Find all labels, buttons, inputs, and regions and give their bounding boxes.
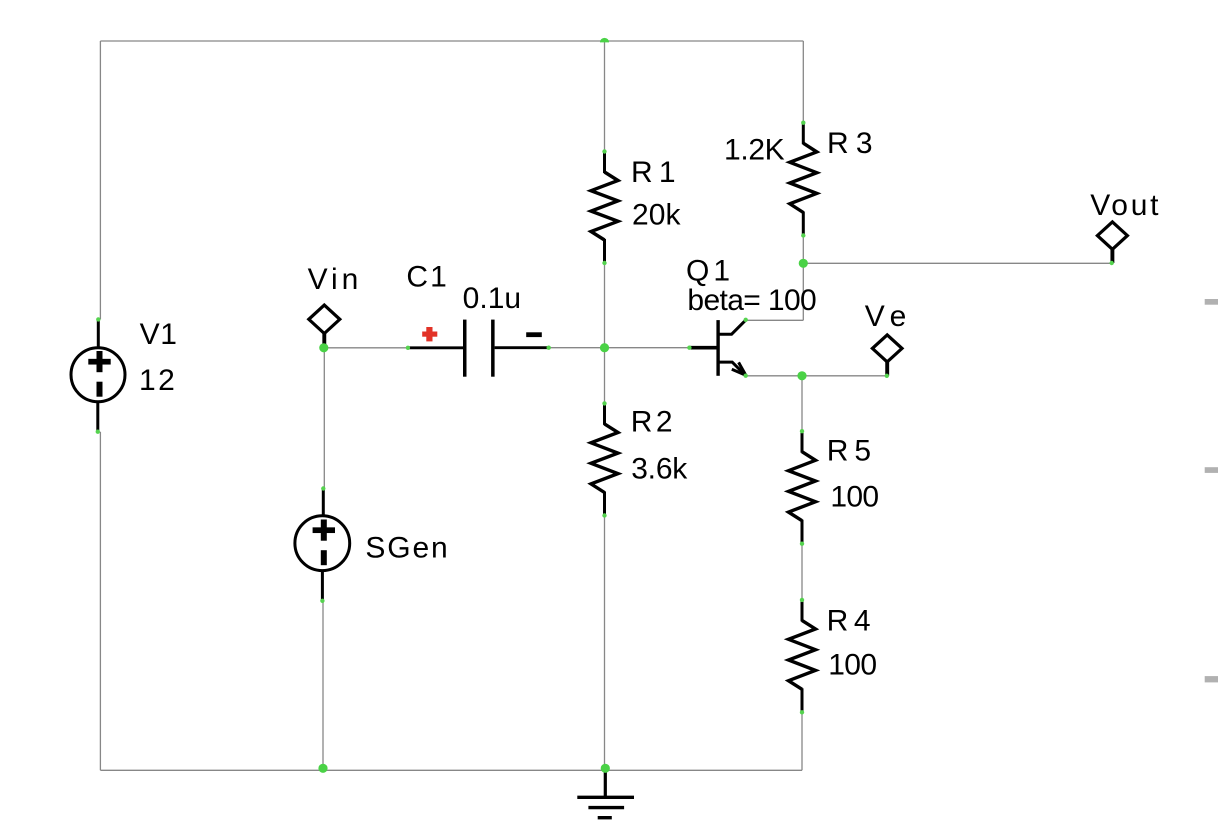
wire top rail to R3 xyxy=(802,41,804,123)
capacitor C1 xyxy=(408,346,463,349)
pin Q1 emitter xyxy=(744,374,748,378)
svg-text:beta= 100: beta= 100 xyxy=(687,284,816,317)
resistor R2 xyxy=(603,403,606,425)
svg-text:R4: R4 xyxy=(827,605,871,638)
svg-text:100: 100 xyxy=(828,648,877,681)
pin R2 top xyxy=(602,401,606,405)
svg-text:R3: R3 xyxy=(827,127,873,160)
scrollbar mark 3 xyxy=(1205,676,1218,682)
wire R3 to Vout junction xyxy=(802,236,804,264)
voltage source V1 xyxy=(97,319,100,348)
resistor R5 xyxy=(801,431,804,453)
junction SGen / bottom rail xyxy=(318,764,327,773)
wire C1 to base junction xyxy=(549,347,605,349)
wire R4 to bottom corner xyxy=(801,712,803,770)
pin Q1 collector xyxy=(744,318,748,322)
svg-text:12: 12 xyxy=(139,364,175,397)
pin R4 bottom xyxy=(800,710,804,714)
wire collector row xyxy=(746,319,804,321)
svg-text:Ve: Ve xyxy=(865,300,907,333)
signal source SGen xyxy=(322,489,325,517)
transistor Q1 xyxy=(689,346,716,350)
scrollbar mark 1 xyxy=(1205,299,1218,305)
svg-text:SGen: SGen xyxy=(365,531,447,564)
pin R4 top xyxy=(800,598,804,602)
pin R5 top xyxy=(800,429,804,433)
pin R2 bottom xyxy=(602,513,606,517)
pin R1 bottom xyxy=(602,261,606,265)
pin C1 left xyxy=(406,346,410,350)
svg-text:R5: R5 xyxy=(827,434,871,467)
pin SGen top xyxy=(321,486,325,490)
node Vin junction xyxy=(319,343,328,352)
node Vin flag xyxy=(322,333,326,348)
pin V1 bottom xyxy=(96,430,100,434)
pin Vout flag xyxy=(1110,261,1114,265)
svg-text:20k: 20k xyxy=(632,198,682,231)
pin Ve flag xyxy=(885,374,889,378)
svg-text:C1: C1 xyxy=(406,261,446,294)
wire left rail lower xyxy=(99,432,101,771)
svg-text:R1: R1 xyxy=(631,156,676,189)
wire R2 to ground rail xyxy=(604,516,606,771)
pin R5 bottom xyxy=(800,542,804,546)
pin V1 top xyxy=(96,317,100,321)
wire emitter junction to R5 xyxy=(801,376,803,431)
svg-text:Vin: Vin xyxy=(308,263,359,296)
scrollbar mark 2 xyxy=(1205,467,1218,473)
ground xyxy=(604,770,607,797)
wire Vin to C1 xyxy=(324,347,408,349)
wire Vin to SGen xyxy=(323,348,325,489)
wire base junction to Q1 base xyxy=(605,347,690,349)
svg-text:1.2K: 1.2K xyxy=(724,133,785,166)
wire SGen to bottom rail xyxy=(322,601,324,771)
wire Vout net xyxy=(803,262,1111,264)
pin Q1 base xyxy=(687,346,691,350)
svg-text:100: 100 xyxy=(830,480,879,513)
svg-text:0.1u: 0.1u xyxy=(463,282,521,315)
svg-text:Q1: Q1 xyxy=(686,255,730,288)
pin R1 top xyxy=(602,149,606,153)
resistor R4 xyxy=(801,600,804,622)
svg-text:V1: V1 xyxy=(140,318,177,351)
pin C1 right xyxy=(547,346,551,350)
wire R5 to R4 xyxy=(801,544,803,600)
wire R1-R2 mid segment xyxy=(604,263,606,403)
resistor R1 xyxy=(603,152,606,174)
junction base node xyxy=(600,343,609,352)
svg-text:Vout: Vout xyxy=(1090,189,1159,222)
pin SGen bottom xyxy=(320,599,324,603)
junction emitter node xyxy=(797,371,806,380)
wire R1 branch upper xyxy=(604,41,606,152)
junction top rail / R1 branch xyxy=(600,38,609,43)
pin R3 top xyxy=(801,121,805,125)
junction Vout node xyxy=(799,259,808,268)
node Ve flag xyxy=(885,361,889,376)
svg-text:R2: R2 xyxy=(631,406,673,439)
wire top rail xyxy=(100,40,803,42)
wire bottom rail xyxy=(100,769,802,771)
wire left rail upper xyxy=(99,41,101,319)
C1 polarity plus mark xyxy=(422,332,437,337)
resistor R3 xyxy=(802,123,805,145)
wire emitter row to Ve xyxy=(746,375,887,377)
C1 polarity minus mark xyxy=(526,332,542,337)
node Vout flag xyxy=(1110,248,1114,263)
svg-text:3.6k: 3.6k xyxy=(631,453,688,486)
junction ground / bottom rail xyxy=(601,764,610,773)
wire Vout junction down to collector row xyxy=(802,263,804,320)
pin R3 bottom xyxy=(801,233,805,237)
